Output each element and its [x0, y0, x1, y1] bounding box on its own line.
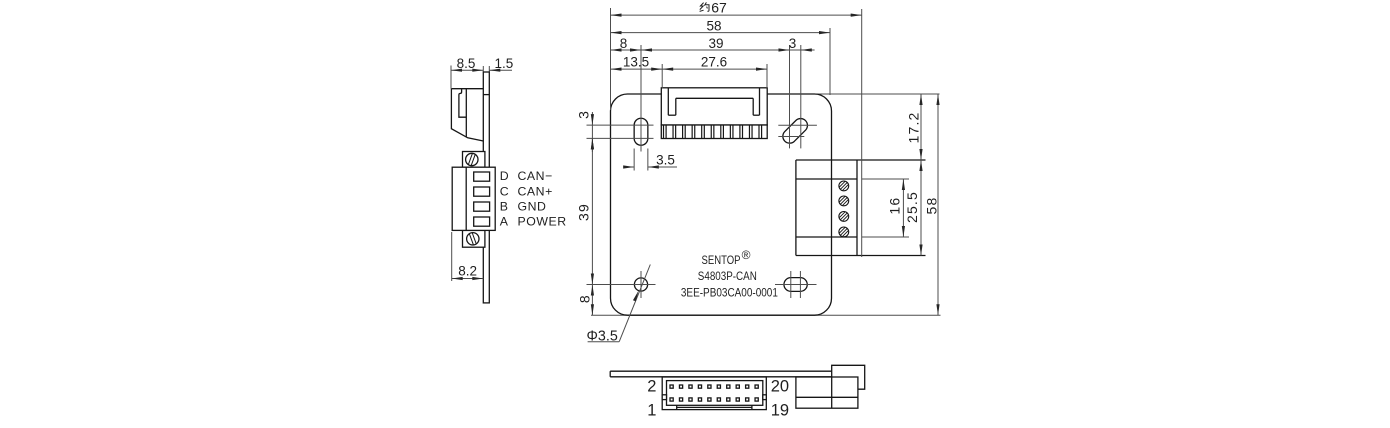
svg-text:58: 58: [706, 18, 721, 33]
svg-text:8.5: 8.5: [457, 56, 476, 71]
svg-text:2: 2: [647, 378, 656, 396]
svg-text:8: 8: [577, 294, 593, 303]
svg-text:1: 1: [647, 402, 656, 420]
svg-text:39: 39: [575, 203, 591, 221]
svg-text:3EE-PB03CA00-0001: 3EE-PB03CA00-0001: [681, 287, 778, 299]
svg-text:D: D: [500, 169, 509, 183]
svg-text:3: 3: [789, 36, 797, 51]
svg-text:25.5: 25.5: [904, 191, 920, 223]
svg-text:1.5: 1.5: [495, 56, 514, 71]
svg-text:SENTOP: SENTOP: [702, 255, 741, 267]
svg-text:A: A: [500, 215, 509, 229]
svg-text:8: 8: [620, 36, 628, 51]
svg-text:CAN−: CAN−: [518, 169, 553, 183]
svg-text:13.5: 13.5: [623, 54, 649, 69]
svg-text:39: 39: [708, 36, 723, 51]
svg-text:20: 20: [771, 378, 789, 396]
svg-text:27.6: 27.6: [701, 54, 727, 69]
svg-text:8.2: 8.2: [458, 264, 477, 279]
svg-text:Φ3.5: Φ3.5: [587, 328, 618, 344]
svg-text:S4803P-CAN: S4803P-CAN: [698, 271, 757, 283]
svg-text:58: 58: [923, 197, 939, 215]
svg-text:17.2: 17.2: [906, 111, 922, 143]
svg-text:16: 16: [886, 197, 902, 215]
svg-text:®: ®: [742, 248, 751, 262]
svg-text:3.5: 3.5: [656, 153, 675, 168]
svg-text:67: 67: [711, 0, 727, 15]
svg-text:GND: GND: [518, 199, 547, 213]
svg-text:POWER: POWER: [518, 215, 567, 229]
svg-text:3: 3: [575, 110, 591, 119]
svg-text:19: 19: [771, 402, 789, 420]
svg-text:B: B: [500, 199, 508, 213]
svg-text:C: C: [500, 185, 509, 199]
svg-text:CAN+: CAN+: [518, 185, 553, 199]
